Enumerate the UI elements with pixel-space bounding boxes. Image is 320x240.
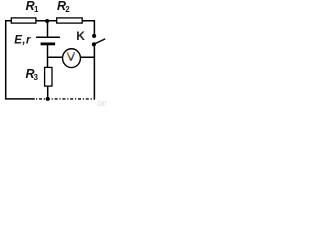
- switch K lower terminal dot: [92, 42, 96, 46]
- svg-text:1: 1: [34, 5, 39, 14]
- wire: bottom dash-dot segment: [36, 98, 95, 100]
- node A: junction dot between R1 and R2: [45, 19, 49, 23]
- svg-text:K: K: [76, 29, 85, 43]
- voltmeter V1 circle: [63, 49, 81, 68]
- wire: right branch below switch: [93, 46, 95, 99]
- svg-text:E,r: E,r: [14, 34, 31, 46]
- battery E,r short plate: [41, 43, 56, 46]
- wire: middle branch between battery and R3: [47, 44, 49, 68]
- switch K blade: [95, 39, 105, 44]
- wire: middle branch upper vertical: [47, 21, 49, 37]
- switch K upper terminal dot: [92, 34, 96, 38]
- resistor R2: [57, 18, 82, 23]
- resistor R3: [45, 67, 52, 86]
- battery E,r long plate: [36, 36, 60, 38]
- wire: left border vertical: [5, 20, 7, 99]
- svg-text:3: 3: [34, 73, 39, 82]
- resistor R1: [11, 18, 36, 23]
- node B: bottom junction dot: [46, 97, 50, 101]
- wire: bottom solid segment: [5, 98, 35, 100]
- wire: right branch above switch: [93, 20, 95, 34]
- svg-text:2: 2: [65, 5, 70, 14]
- wire: middle branch below R3: [47, 87, 49, 99]
- wire: top wire from left corner to top-right corner: [5, 20, 95, 22]
- wire: voltmeter horizontal branch: [48, 56, 95, 58]
- voltmeter V glyph left stroke: [67, 52, 71, 60]
- svg-text:om: om: [97, 98, 106, 106]
- voltmeter V glyph right stroke: [71, 52, 75, 60]
